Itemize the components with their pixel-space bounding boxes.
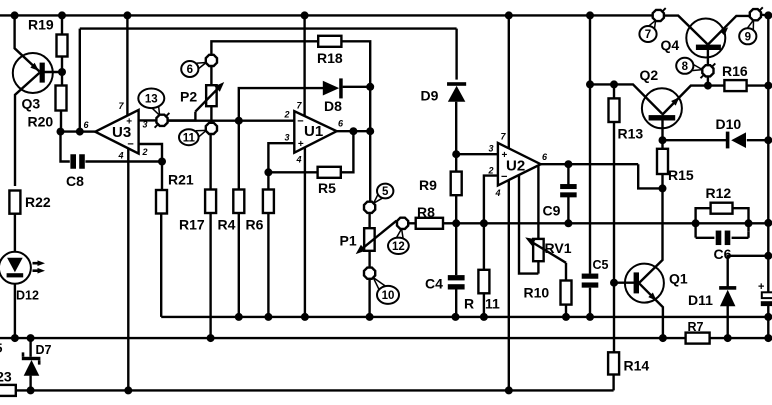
label C9 xyxy=(543,203,561,219)
resistor R19 xyxy=(57,35,68,57)
wire D9 top drop xyxy=(455,29,457,80)
junction rail C / U3 pin4 xyxy=(124,386,132,394)
wire D8 right to node xyxy=(343,86,371,88)
op-amp U2 xyxy=(498,143,541,186)
label RV1 xyxy=(545,240,572,256)
junction C9 / feedback line xyxy=(564,219,572,227)
junction rail B / D12 xyxy=(11,334,19,342)
junction rail B / Q1 emitter / R7 xyxy=(659,334,667,342)
resistor R12 xyxy=(711,203,733,214)
capacitor C8 xyxy=(70,154,84,169)
label R19 xyxy=(28,17,54,33)
wire R5 right loop xyxy=(341,131,354,172)
trimmer RV1 body xyxy=(533,239,544,261)
wire right rail segment (D11 branch to cap C7) xyxy=(767,256,769,292)
label R13 xyxy=(618,126,644,142)
label C4 xyxy=(425,276,443,292)
svg-text:D9: D9 xyxy=(421,88,439,104)
svg-text:R22: R22 xyxy=(25,194,51,210)
transistor Q1 xyxy=(625,264,664,339)
wire R15 bottom lead xyxy=(661,174,663,188)
label D11 xyxy=(688,292,713,308)
resistor R15 xyxy=(657,149,668,174)
junction U1 output / terminal5 branch xyxy=(366,127,374,135)
wire R15 top lead xyxy=(661,140,663,149)
label 5 circled xyxy=(377,184,393,199)
label R8 xyxy=(417,204,435,220)
wire rail B left of R7 xyxy=(0,337,686,339)
svg-text:C8: C8 xyxy=(66,173,84,189)
junction top rail / column x590 xyxy=(586,11,594,19)
wire R19-R20 junction xyxy=(58,57,66,86)
label Q1 xyxy=(669,271,688,287)
pin 2 label U2 xyxy=(487,166,493,176)
pin 4 label U3 xyxy=(117,151,123,161)
resistor R14 xyxy=(608,352,619,374)
junction Q2 emitter / terminal 8 / R16 xyxy=(704,82,712,90)
terminal 9 (Q4 emitter) xyxy=(750,9,761,20)
pin 7 label U3 xyxy=(118,101,124,111)
wire V+ column x590 xyxy=(589,15,591,273)
tail terminal 11 xyxy=(196,130,207,137)
junction Q2 collector / column x590 xyxy=(586,80,594,88)
wire C5 to rail A xyxy=(589,288,591,317)
wire U3 pin4 to rail C xyxy=(127,148,129,390)
junction rail C / D7 xyxy=(27,386,35,394)
label R7 xyxy=(688,320,704,334)
wire D11 top branch xyxy=(728,256,769,287)
wire top V+ rail xyxy=(0,14,653,16)
resistor R22 xyxy=(9,191,20,214)
diode D9 xyxy=(447,82,466,102)
wire C6 loop right down xyxy=(747,231,749,238)
wire P2 bottom lead xyxy=(210,106,212,122)
label 13 circled xyxy=(138,89,164,109)
junction rail A / R11 xyxy=(480,313,488,321)
svg-text:R15: R15 xyxy=(668,167,694,183)
wire C6 right lead xyxy=(732,237,749,239)
wire U2 output jog to R15/Q1 xyxy=(638,164,662,188)
junction rail A / C5 xyxy=(586,313,594,321)
wire C9 bottom lead xyxy=(567,197,569,224)
wire right rail segment (cap C7 to rail A) xyxy=(767,303,769,317)
capacitor C9 xyxy=(560,184,577,197)
junction feedback / R12C6 left xyxy=(692,219,700,227)
junction rail A / R6 xyxy=(264,313,272,321)
wire R4 to rail A xyxy=(238,213,240,317)
svg-text:6: 6 xyxy=(187,64,193,76)
wire wiper terminal to P2 arrow xyxy=(168,112,196,121)
wire U1 pin7 from top rail xyxy=(303,15,305,116)
tail terminal 10 xyxy=(373,278,385,291)
resistor R20 xyxy=(56,86,67,111)
resistor R8 xyxy=(416,218,443,229)
wire R17 to rail B xyxy=(209,213,211,338)
label Q2 xyxy=(640,67,659,83)
terminal 7 (Q4 collector) xyxy=(653,10,664,21)
svg-text:R6: R6 xyxy=(246,217,264,233)
wire pin2 net horizontal (wiper to U1) xyxy=(168,119,295,121)
svg-text:8: 8 xyxy=(682,61,689,73)
tail terminal 13 xyxy=(152,105,169,128)
wire terminal 11 down to R17 xyxy=(209,134,211,189)
wire U1 output down to terminal 5 xyxy=(369,131,371,201)
pin 3 label U2 xyxy=(488,144,493,154)
resistor R6 xyxy=(263,190,274,214)
svg-text:Q1: Q1 xyxy=(669,271,688,287)
wire R4 top lead xyxy=(238,121,240,190)
resistor R5 xyxy=(318,167,341,178)
pin 3 label U1 xyxy=(284,133,289,143)
wire Q2 base lead down xyxy=(661,120,663,140)
label 12 circled xyxy=(388,238,409,254)
wire R12 right loop xyxy=(733,208,749,231)
label D9 xyxy=(421,88,439,104)
svg-text:11: 11 xyxy=(485,296,500,312)
label D7 xyxy=(36,343,52,357)
wire Q2 collector xyxy=(590,84,662,113)
svg-text:4: 4 xyxy=(295,155,301,165)
zener diode D7 xyxy=(22,352,41,375)
wire D12 to rail B xyxy=(14,284,16,338)
svg-text:R21: R21 xyxy=(168,172,194,188)
label D10 xyxy=(716,116,742,132)
tail terminal 5 xyxy=(374,194,383,203)
wire terminal 9 to top rail xyxy=(761,13,768,16)
junction pin2 net / R4 / D8 xyxy=(235,117,243,125)
label 6 circled xyxy=(181,61,198,77)
svg-text:U2: U2 xyxy=(506,158,525,175)
wire Q3 base xyxy=(44,71,62,73)
label R15 xyxy=(668,167,694,183)
junction feedback / right rail xyxy=(764,219,772,227)
capacitor C4 xyxy=(448,275,465,289)
wire terminal 12 to R8 xyxy=(408,222,415,224)
label P2 xyxy=(180,89,197,105)
label 8 circled xyxy=(676,58,693,74)
wire R5 left lead xyxy=(268,171,317,173)
svg-text:Q4: Q4 xyxy=(661,37,680,53)
svg-text:7: 7 xyxy=(645,29,651,41)
wire right rail segment (top to R16 node) xyxy=(767,15,769,85)
label R11 xyxy=(464,296,500,312)
terminal 12 (P1 wiper) xyxy=(397,218,408,229)
wire P1 wiper diagonal xyxy=(353,221,396,257)
svg-text:P2: P2 xyxy=(180,89,197,105)
pin 7 label U1 xyxy=(296,101,302,111)
svg-text:3: 3 xyxy=(488,144,493,154)
label 10 circled xyxy=(377,286,399,304)
resistor R23 xyxy=(0,385,16,396)
junction top rail / R19 xyxy=(58,11,66,19)
LED D12 xyxy=(0,252,45,284)
junction feedback / R11 xyxy=(480,219,488,227)
wire R18 right corner down xyxy=(341,41,370,87)
svg-text:U3: U3 xyxy=(112,124,131,141)
wire U1 output xyxy=(337,130,371,132)
wire RV1 wiper diagonal xyxy=(523,234,566,263)
label R18 xyxy=(317,50,343,66)
label C8 xyxy=(66,173,84,189)
label R20 xyxy=(28,114,54,130)
wire P2 top lead xyxy=(210,66,212,85)
svg-text:D12: D12 xyxy=(16,289,39,303)
svg-text:2: 2 xyxy=(487,166,493,176)
wire R6 to rail A xyxy=(267,213,269,317)
wire R19 top lead xyxy=(61,15,63,34)
svg-text:R14: R14 xyxy=(624,358,650,374)
capacitor C7 electrolytic xyxy=(758,281,772,306)
wire R20 bottom lead xyxy=(60,111,62,132)
resistor R18 xyxy=(318,36,341,47)
svg-text:D7: D7 xyxy=(36,343,52,357)
wire R16 right lead xyxy=(747,84,769,86)
transistor Q2 xyxy=(642,86,708,129)
wire U3 output xyxy=(76,128,95,136)
wire U2 pin4 to rail C xyxy=(508,180,510,391)
wire right rail segment (rail A to rail B) xyxy=(767,317,769,338)
junction D8 / R18 xyxy=(366,83,374,91)
svg-text:P1: P1 xyxy=(340,233,357,249)
svg-text:R10: R10 xyxy=(524,285,550,301)
wire R11 top lead xyxy=(483,223,485,269)
svg-text:5: 5 xyxy=(382,186,389,198)
junction right rail / D11 xyxy=(764,252,772,260)
diode D11 xyxy=(719,286,736,306)
junction R15 / U2 output / Q1 collector xyxy=(659,184,667,192)
wire U2 pin7 from top rail xyxy=(508,15,510,148)
wire Q4 base lead xyxy=(707,50,709,66)
resistor R9 xyxy=(451,172,462,196)
diode D10 xyxy=(726,132,746,149)
terminal 8 (Q4 base) xyxy=(702,65,713,76)
wire D7 top lead xyxy=(29,338,31,357)
wire R9 to R8 node xyxy=(455,195,457,275)
junction feedback / R12C6 right xyxy=(745,219,753,227)
wire P1 top lead xyxy=(368,213,370,228)
svg-text:4: 4 xyxy=(117,151,123,161)
terminal 13 (P2 wiper) xyxy=(156,115,167,126)
label P1 xyxy=(340,233,357,249)
svg-text:Q3: Q3 xyxy=(22,96,41,112)
svg-text:3: 3 xyxy=(284,133,289,143)
wire U1 pin4 to rail A xyxy=(304,148,306,317)
tail terminal 9 xyxy=(748,7,763,30)
wire node down to U1 output xyxy=(369,87,371,131)
wire R11 to rail A xyxy=(483,293,485,317)
wire right rail segment (R16 node to feedback line) xyxy=(767,86,769,223)
svg-text:11: 11 xyxy=(183,132,196,144)
svg-text:C9: C9 xyxy=(543,203,561,219)
svg-text:R9: R9 xyxy=(419,177,437,193)
wire U2 pin1 loop (offset null left) xyxy=(519,175,538,274)
resistor R21 xyxy=(156,190,167,214)
svg-text:13: 13 xyxy=(145,93,158,105)
wire second rail U3-out to D9 (horizontal) xyxy=(80,27,457,29)
junction rail A / right rail xyxy=(764,313,772,321)
svg-text:R12: R12 xyxy=(706,185,732,201)
junction top rail / Q3 xyxy=(11,11,19,19)
svg-text:2: 2 xyxy=(141,147,147,157)
wire U2 pin5 stub (offset null right) xyxy=(537,166,539,239)
label R23 (clipped) xyxy=(0,369,12,385)
label R22 xyxy=(25,194,51,210)
junction U2 output / C9 xyxy=(564,160,572,168)
svg-text:U1: U1 xyxy=(304,123,323,140)
wire U3 pin2 loop xyxy=(139,144,162,162)
op-amp U1 xyxy=(294,111,336,153)
tail terminal 6 xyxy=(196,63,206,70)
transistor Q4 xyxy=(664,16,749,58)
label R14 xyxy=(624,358,650,374)
junction top rail / U1 pin7 xyxy=(301,11,309,19)
svg-text:R19: R19 xyxy=(28,17,54,33)
svg-text:R4: R4 xyxy=(218,217,236,233)
label U1 xyxy=(304,123,323,140)
label Q4 xyxy=(661,37,680,53)
wire terminal 10 to rail A xyxy=(368,279,370,317)
svg-text:R18: R18 xyxy=(317,50,343,66)
wire C8 right to node xyxy=(85,160,162,162)
svg-text:D8: D8 xyxy=(324,98,342,114)
pin 2 label U3 xyxy=(141,147,147,157)
wire rail C bottom xyxy=(16,389,614,391)
svg-text:9: 9 xyxy=(745,31,751,43)
pin 4 label U1 xyxy=(295,155,301,165)
svg-text:D11: D11 xyxy=(688,292,713,308)
resistor R16 xyxy=(724,80,746,91)
label R9 xyxy=(419,177,437,193)
wire U1 pin3 loop / R6 top xyxy=(268,143,294,189)
junction rail A / R10 xyxy=(562,313,570,321)
svg-text:12: 12 xyxy=(392,241,405,253)
wire R13 column down to Q1 base xyxy=(613,122,615,352)
label R17 xyxy=(179,217,205,233)
wire R8 right lead xyxy=(443,222,456,224)
junction rail A / C4 xyxy=(452,313,460,321)
svg-text:2: 2 xyxy=(283,110,289,120)
wire R10 to rail A xyxy=(565,305,567,317)
terminal 11 (P2 bottom) xyxy=(206,123,217,134)
wire U3 pin3 to wiper terminal xyxy=(139,119,157,121)
svg-text:+: + xyxy=(298,139,304,150)
junction top rail right corner xyxy=(764,11,772,19)
label R10 xyxy=(524,285,550,301)
label C5 xyxy=(593,258,609,272)
label Q3 xyxy=(22,96,41,112)
wire R21 bottom lead to rail A xyxy=(160,190,162,317)
wire rail B right of R7 xyxy=(710,337,769,339)
label R6 xyxy=(246,217,264,233)
label C6 xyxy=(714,246,732,262)
svg-text:4: 4 xyxy=(494,188,500,198)
wire C8 left loop xyxy=(61,132,70,162)
transistor Q3 xyxy=(13,53,53,186)
label 11 circled xyxy=(179,129,199,145)
svg-text:R7: R7 xyxy=(688,320,704,334)
wire U2 pin2 loop xyxy=(484,176,498,224)
svg-text:R13: R13 xyxy=(618,126,644,142)
pin 7 label U2 xyxy=(500,132,506,142)
wire C6 left lead xyxy=(696,237,715,239)
svg-text:−: − xyxy=(297,116,303,128)
wire Q2 base node to D10 xyxy=(663,139,728,141)
label 7 circled xyxy=(639,26,656,42)
tail terminal 12 xyxy=(397,229,403,239)
label R21 xyxy=(168,172,194,188)
junction rail C / U2 pin4 xyxy=(505,386,513,394)
label D12 xyxy=(16,289,39,303)
svg-text:D10: D10 xyxy=(716,116,742,132)
wire P2 wiper diagonal xyxy=(195,79,226,111)
wire Q3 collector from top rail xyxy=(15,15,40,71)
junction right rail / D10 xyxy=(764,136,772,144)
wire U3 pin7 from top rail xyxy=(126,15,128,116)
wire C9 top lead xyxy=(567,164,569,185)
wire RV1 wiper to R10 xyxy=(565,263,567,281)
label clipped net 5 xyxy=(0,342,3,356)
svg-text:R16: R16 xyxy=(722,63,748,79)
junction Q2 collector / R13 xyxy=(610,80,618,88)
diode D8 xyxy=(323,78,343,98)
junction Q1 base xyxy=(610,279,618,287)
junction rail A / R4 xyxy=(235,313,243,321)
pin 6 label U1 xyxy=(338,119,344,129)
wire D9 to U2 pin3 node xyxy=(455,102,457,172)
terminal 10 (P1 bottom) xyxy=(364,268,375,279)
wire feedback line (pin2 net) xyxy=(456,222,768,224)
junction rail A / U1 pin4 xyxy=(301,313,309,321)
wire terminal 8 to R16 line xyxy=(707,77,709,86)
junction rail B / R17 xyxy=(207,334,215,342)
junction rail B / right rail xyxy=(764,334,772,342)
wire R12/C6 left loop xyxy=(696,208,711,237)
wire P1 bottom lead xyxy=(368,251,370,268)
potentiometer P1 body xyxy=(364,228,375,251)
junction rail A / P1 chain xyxy=(366,313,374,321)
svg-text:R5: R5 xyxy=(318,180,336,196)
junction right rail / R16 xyxy=(764,82,772,90)
wire U3 output to C8 branch xyxy=(57,128,80,136)
resistor R7 xyxy=(686,333,710,344)
resistor R10 xyxy=(561,281,572,305)
svg-text:10: 10 xyxy=(382,290,395,302)
junction Q2 base / R15 / D10 xyxy=(659,136,667,144)
wire U2 pin3 stub xyxy=(456,153,498,155)
wire D11 bottom lead xyxy=(727,306,729,338)
wire D10 right lead xyxy=(747,139,769,141)
junction U1 output / R5 branch xyxy=(349,127,357,135)
wire terminal 6 up to R18 line xyxy=(211,41,318,54)
wire RV1 bottom lead xyxy=(537,261,539,273)
svg-text:R: R xyxy=(464,296,474,312)
op-amp U3 xyxy=(95,110,138,154)
svg-text:Q2: Q2 xyxy=(640,67,659,83)
svg-text:C5: C5 xyxy=(593,258,609,272)
label R4 xyxy=(218,217,236,233)
label U3 xyxy=(112,124,131,141)
resistor R17 xyxy=(205,190,216,214)
junction rail B / D11 xyxy=(724,334,732,342)
wire Q1 collector xyxy=(639,188,663,283)
label D8 xyxy=(324,98,342,114)
label R12 xyxy=(706,185,732,201)
tail terminal 8 xyxy=(692,63,716,78)
wire U2 output xyxy=(541,163,639,165)
junction R8 / R9 / feedback line xyxy=(452,219,460,227)
svg-text:R17: R17 xyxy=(179,217,205,233)
pin 6 label U2 xyxy=(542,152,548,162)
